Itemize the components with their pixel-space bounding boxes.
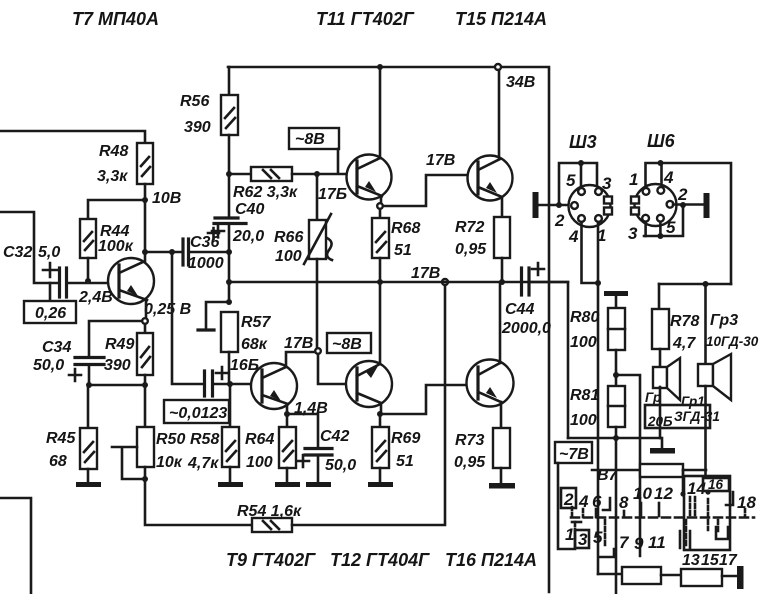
connector Ш6 body: [631, 184, 677, 226]
wire bottom-left stub: [0, 498, 31, 594]
resistor R45: [46, 428, 97, 470]
svg-text:3,3к: 3,3к: [97, 168, 128, 185]
wire T16 emitter to R73: [500, 402, 503, 428]
svg-text:7: 7: [619, 533, 630, 552]
wire ~7В stem: [558, 463, 575, 549]
svg-text:Т15 П214А: Т15 П214А: [455, 9, 547, 29]
resistor R62 3,3к: [229, 167, 347, 201]
wire C34 to node: [88, 365, 91, 385]
capacitor 0,0123 coupling: [205, 367, 229, 396]
svg-text:4,7: 4,7: [672, 335, 696, 352]
phone plug bottom right: [737, 566, 744, 589]
svg-text:С32: С32: [3, 244, 32, 261]
wire Ш6 bottom bracket: [644, 205, 683, 236]
wire C36 to vertical node: [189, 251, 229, 254]
contact dashes left group: [582, 509, 585, 517]
svg-text:5: 5: [593, 528, 603, 547]
resistor R54 1,6к: [237, 503, 302, 532]
node R66 top on base wire: [314, 171, 320, 177]
node R68 bottom on rail: [377, 279, 383, 285]
resistor R80 100: [570, 308, 625, 386]
trimmer R50: [112, 427, 185, 479]
svg-text:2: 2: [677, 185, 688, 204]
resistor R78 4,7: [652, 309, 699, 370]
svg-text:R48: R48: [99, 143, 128, 160]
svg-text:Т16 П214А: Т16 П214А: [445, 550, 537, 570]
wire R48 bottom to collector node: [144, 184, 147, 261]
wire R44 bottom to base wire: [87, 258, 90, 281]
svg-text:10В: 10В: [152, 190, 181, 207]
svg-text:R81: R81: [570, 387, 599, 404]
contact dash extra A: [571, 507, 574, 517]
svg-text:50,0: 50,0: [33, 357, 64, 374]
contact dashes inside unit: [689, 497, 692, 516]
svg-text:5: 5: [666, 218, 676, 237]
node R80/R81: [613, 372, 619, 378]
svg-text:100к: 100к: [98, 238, 134, 255]
svg-text:Ш6: Ш6: [647, 131, 676, 151]
svg-text:~7В: ~7В: [559, 446, 589, 463]
svg-text:R57: R57: [241, 314, 271, 331]
svg-text:390: 390: [104, 357, 131, 374]
transistor T7: [108, 258, 154, 304]
node 10В junction: [142, 197, 148, 203]
svg-text:Т7 МП40А: Т7 МП40А: [72, 9, 159, 29]
svg-text:17В: 17В: [284, 335, 313, 352]
node T11 collector on rail: [377, 64, 383, 70]
contact tick 8: [623, 511, 626, 517]
wire C34/R49 bottom tie: [89, 384, 145, 387]
label box ~7В: [555, 442, 592, 463]
wire to speaker Гр3: [704, 284, 707, 364]
node speaker bus: [703, 281, 709, 287]
contact tick 10: [640, 503, 643, 516]
svg-text:68к: 68к: [241, 336, 268, 353]
svg-text:34В: 34В: [506, 74, 535, 91]
svg-text:9: 9: [634, 534, 644, 553]
wire T9 collector up-right: [286, 352, 315, 367]
svg-text:R54 1,6к: R54 1,6к: [237, 503, 302, 520]
top supply rail: [228, 67, 549, 592]
wire Ш6 to right rail: [661, 163, 732, 284]
wire T12 emitter down: [380, 403, 383, 414]
transistor T12: [346, 361, 392, 407]
svg-text:R45: R45: [46, 430, 76, 447]
connector Ш3 body: [569, 185, 613, 227]
svg-text:1: 1: [629, 170, 638, 189]
svg-text:4,7к: 4,7к: [187, 455, 219, 472]
svg-text:20,0: 20,0: [232, 228, 264, 245]
wire to output plug: [722, 575, 737, 578]
ground below R45: [76, 469, 101, 487]
svg-text:~8В: ~8В: [332, 336, 362, 353]
svg-text:17: 17: [719, 552, 738, 569]
svg-text:12: 12: [654, 484, 673, 503]
svg-text:16: 16: [708, 477, 724, 492]
contact tick 5: [595, 509, 598, 517]
svg-text:4: 4: [663, 168, 674, 187]
resistor R69 51: [372, 414, 420, 482]
node feedback taps rail: [442, 279, 448, 285]
transistor T11: [347, 155, 392, 200]
svg-text:R64: R64: [245, 431, 274, 448]
svg-text:100: 100: [246, 454, 273, 471]
svg-text:11: 11: [648, 533, 666, 552]
ground below R64: [275, 482, 300, 487]
node below R49: [142, 382, 148, 388]
wire Ш3 pin1 down to switch: [597, 222, 600, 574]
wire C44 output down: [529, 282, 568, 438]
svg-text:0,95: 0,95: [454, 454, 486, 471]
svg-text:50,0: 50,0: [325, 457, 356, 474]
node R50 bottom: [142, 476, 148, 482]
speaker Гр1: [653, 358, 680, 400]
svg-text:17В: 17В: [411, 265, 440, 282]
node R72 bottom on rail: [499, 279, 505, 285]
capacitor C44 2000,0: [501, 263, 551, 337]
svg-text:Т12 ГТ404Г: Т12 ГТ404Г: [330, 550, 430, 570]
svg-text:5,0: 5,0: [38, 244, 60, 261]
svg-text:~8В: ~8В: [295, 131, 325, 148]
svg-text:10: 10: [633, 484, 652, 503]
resistor R73 0,95: [454, 428, 510, 483]
phone plug at Ш3 pin2: [533, 192, 572, 218]
svg-text:18: 18: [737, 493, 756, 512]
node C36 tap to T9 feed: [169, 249, 175, 255]
node pin1/pin4 join: [595, 280, 601, 286]
wire to R78: [658, 284, 661, 309]
wire collector node to C36: [142, 249, 148, 255]
svg-text:0,26: 0,26: [35, 305, 66, 322]
resistor R81 100: [570, 386, 625, 594]
phone plug at Ш6 pin2: [673, 193, 710, 218]
label box 0,26: [24, 283, 76, 323]
svg-text:Ш3: Ш3: [569, 132, 597, 152]
svg-text:ЗГД-31: ЗГД-31: [674, 409, 720, 424]
svg-text:R78: R78: [670, 313, 699, 330]
ground below R58: [218, 482, 243, 487]
resistor R58 4,7к: [187, 384, 239, 482]
wire В7 row line: [592, 469, 640, 472]
svg-text:R72: R72: [455, 219, 484, 236]
svg-text:100: 100: [275, 248, 302, 265]
wire down to R45: [87, 385, 90, 428]
wire feedback down-right: [145, 479, 252, 525]
label box ~0,0123: [164, 400, 229, 423]
svg-text:5: 5: [566, 171, 576, 190]
wire T16 collector to rail: [499, 284, 502, 363]
wire Ш3 pin4 down: [582, 222, 599, 283]
wire T15 collector to rail: [498, 70, 501, 159]
svg-text:С44: С44: [505, 301, 534, 318]
transistor T9: [251, 363, 297, 409]
wire Ш3 top bracket: [559, 163, 597, 205]
switch dashed common line: [571, 516, 754, 519]
contact dot 16: [705, 489, 710, 494]
contact number 2 boxed: [561, 488, 576, 509]
svg-text:2000,0: 2000,0: [501, 320, 551, 337]
contact tick 12: [658, 503, 661, 516]
wire speaker Гр3 down: [704, 386, 707, 476]
svg-text:Гр3: Гр3: [710, 312, 738, 329]
svg-text:R68: R68: [391, 220, 420, 237]
svg-text:51: 51: [396, 453, 414, 470]
wire T9 emitter down: [286, 404, 289, 414]
wire feedback to 17В rail: [292, 285, 445, 525]
wire R50 bottom: [144, 467, 147, 479]
transistor T15: [468, 156, 513, 201]
svg-text:С36: С36: [190, 234, 219, 251]
wire speaker bus: [659, 283, 731, 286]
label box ~8В lower: [327, 333, 371, 353]
svg-text:~0,0123: ~0,0123: [169, 405, 227, 422]
resistor R66 100 thermistor: [274, 174, 332, 348]
node rail left end: [226, 279, 232, 285]
wire cap to T9 base node: [213, 383, 251, 386]
wire C36 node down to rail node: [228, 252, 231, 302]
node R56/R62 junction: [226, 171, 232, 177]
svg-text:R69: R69: [391, 430, 420, 447]
wire T11 emitter down: [380, 196, 383, 203]
wire emitter to C34: [89, 321, 142, 357]
wire T9 base feed via coupling cap: [172, 252, 204, 384]
label box ~8В upper: [289, 128, 339, 173]
svg-text:10к: 10к: [156, 454, 183, 471]
wire input lead to C32: [0, 212, 59, 283]
node below C34: [86, 382, 92, 388]
svg-text:R56: R56: [180, 93, 209, 110]
svg-text:R58: R58: [190, 431, 219, 448]
wire T11 emitter to T15 base: [383, 175, 467, 206]
svg-text:R80: R80: [570, 309, 599, 326]
capacitor C36 1000: [183, 228, 224, 272]
resistor R44: [80, 219, 134, 258]
svg-text:0,95: 0,95: [455, 241, 487, 258]
svg-text:С34: С34: [42, 339, 71, 356]
svg-text:R62 3,3к: R62 3,3к: [233, 184, 298, 201]
svg-text:Гр1: Гр1: [681, 394, 705, 409]
contact tick 1: [572, 521, 581, 524]
wire emitter node to C42: [287, 414, 318, 448]
svg-text:17В: 17В: [426, 152, 455, 169]
node R57 top: [226, 299, 232, 305]
wire T15 emitter to R72: [501, 197, 504, 217]
contact number 16 boxed: [703, 477, 729, 492]
midpoint 17В rail: [229, 281, 568, 284]
node T9 collector junction: [315, 348, 321, 354]
wire C32 to T7 base: [67, 282, 109, 285]
capacitor C32 5,0: [3, 244, 67, 297]
node T15 collector on rail: [495, 64, 501, 70]
wire pin1 line to resistor: [598, 573, 622, 576]
svg-text:0,25 В: 0,25 В: [144, 301, 191, 318]
svg-text:Т9 ГТ402Г: Т9 ГТ402Г: [226, 550, 316, 570]
contact tick 18: [726, 492, 733, 505]
svg-text:Т11 ГТ402Г: Т11 ГТ402Г: [316, 9, 415, 29]
svg-text:R73: R73: [455, 432, 484, 449]
capacitor C34 50,0: [33, 339, 104, 381]
wire between bottom resistors: [661, 574, 681, 577]
ground below R69: [368, 482, 393, 487]
resistor R64 100: [245, 414, 296, 482]
component box on В7 line: [640, 464, 683, 477]
contact dot 14: [680, 491, 685, 496]
transistor T16: [467, 360, 514, 407]
speaker Гр3: [698, 354, 731, 400]
resistor R68 51: [372, 209, 420, 282]
svg-text:51: 51: [394, 242, 412, 259]
svg-text:8: 8: [619, 493, 629, 512]
svg-text:15: 15: [701, 552, 720, 569]
ground below R73: [489, 483, 515, 489]
wire T7 emitter down: [145, 300, 148, 321]
svg-text:100: 100: [570, 412, 597, 429]
trimmer R57 68к: [198, 302, 271, 384]
contact number 3 boxed: [575, 530, 589, 549]
resistor switch bottom right: [681, 569, 722, 586]
contact tick 6: [603, 498, 610, 510]
svg-text:3: 3: [578, 530, 588, 549]
svg-text:3: 3: [628, 224, 638, 243]
wire R49 node down to R50: [144, 385, 147, 427]
capacitor C42 50,0: [297, 428, 356, 482]
node Ш6 pin2: [680, 202, 686, 208]
capacitor C40 20,0: [212, 174, 264, 252]
wire input top-left horizontal: [0, 131, 145, 143]
svg-text:R50: R50: [156, 431, 185, 448]
svg-text:17Б: 17Б: [318, 186, 347, 203]
resistor R56: [180, 67, 238, 174]
svg-text:R66: R66: [274, 229, 303, 246]
wire T12 collector to rail: [379, 282, 382, 364]
svg-text:3: 3: [602, 174, 612, 193]
svg-text:68: 68: [49, 453, 67, 470]
wire T9 base node to T12 base: [318, 354, 346, 384]
ground under speakers: [650, 438, 675, 454]
node base junction: [85, 278, 91, 284]
resistor switch bottom left: [622, 567, 661, 584]
svg-text:R49: R49: [105, 336, 134, 353]
svg-text:1: 1: [565, 525, 574, 544]
phone plug above R80: [604, 291, 628, 308]
svg-text:100: 100: [570, 334, 597, 351]
wire T11 collector to rail: [379, 67, 382, 158]
svg-text:1000: 1000: [188, 255, 224, 272]
node Ш3 bracket-pin2: [556, 202, 562, 208]
wire speaker Гр1 down: [659, 387, 662, 438]
svg-text:2,4В: 2,4В: [78, 289, 113, 306]
wire bottom contact foot: [600, 549, 614, 557]
svg-text:390: 390: [184, 119, 211, 136]
resistor R48: [97, 143, 153, 185]
wire node to switch column: [616, 375, 640, 556]
wire output bus: [568, 437, 660, 440]
wire R44 branch: [88, 200, 145, 219]
resistor R49: [104, 324, 153, 385]
node bus/R81: [613, 435, 619, 441]
svg-text:4: 4: [568, 227, 579, 246]
switch unit box: [684, 476, 730, 550]
ground below C42: [306, 482, 331, 487]
node T11 emitter: [377, 203, 383, 209]
svg-text:С40: С40: [235, 201, 264, 218]
svg-text:2: 2: [554, 211, 565, 230]
svg-text:С42: С42: [320, 428, 349, 445]
node emitter junction: [142, 318, 148, 324]
wire 14 column: [682, 470, 685, 494]
wire box to switch unit: [683, 469, 706, 472]
wire T12 emitter to T16 base: [380, 385, 467, 414]
svg-text:13: 13: [682, 552, 700, 569]
resistor R72 0,95: [455, 217, 510, 282]
wire Ш6 top bracket: [646, 163, 662, 187]
svg-text:10ГД-30: 10ГД-30: [706, 334, 759, 349]
